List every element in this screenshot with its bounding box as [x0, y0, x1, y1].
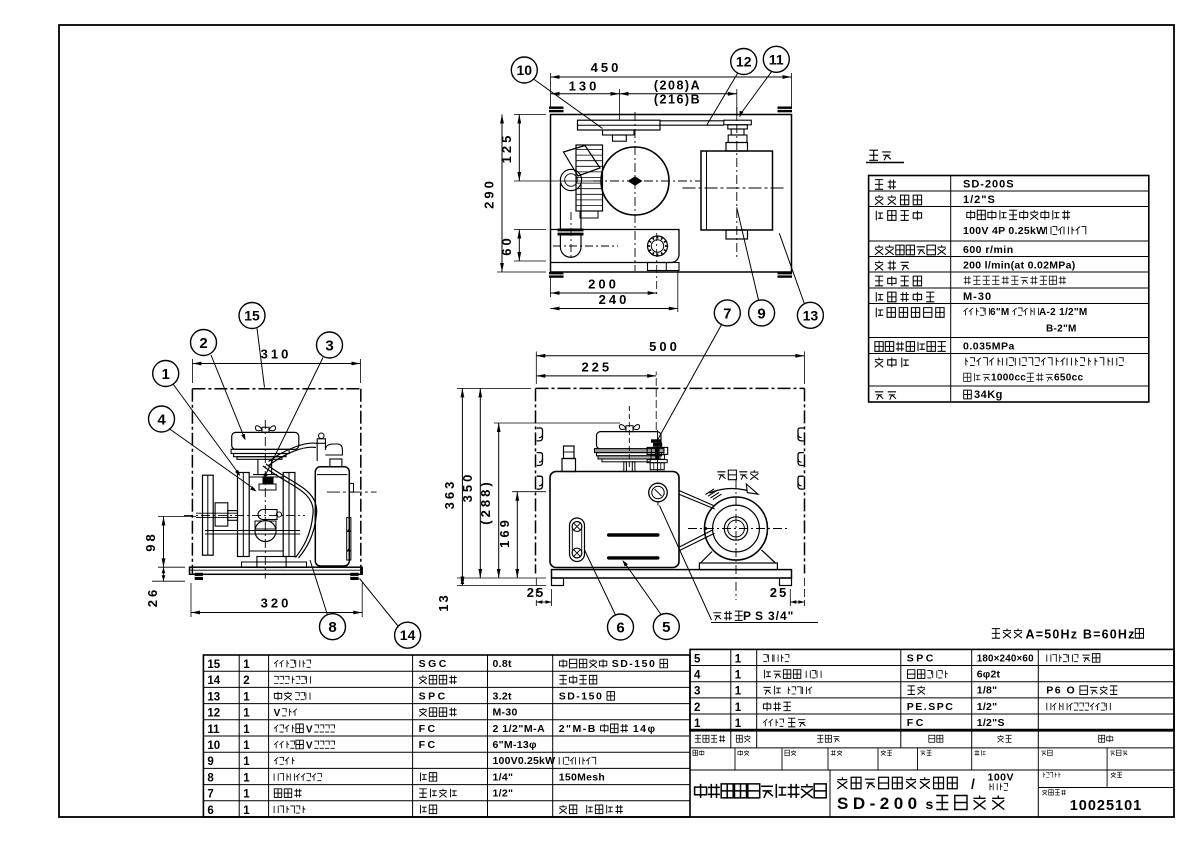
svg-text:363: 363	[442, 479, 457, 510]
svg-text:320: 320	[261, 596, 292, 611]
svg-text:2: 2	[694, 702, 700, 714]
spec table heading	[869, 150, 891, 160]
balloon 5	[653, 614, 679, 640]
svg-text:10025101: 10025101	[1070, 798, 1143, 814]
top view: hose clamp on pipe	[558, 229, 584, 236]
svg-text:1: 1	[735, 718, 742, 730]
svg-text:FC: FC	[907, 717, 926, 729]
drawing number cell	[1042, 790, 1066, 795]
svg-text:225: 225	[581, 359, 612, 374]
svg-text:1/8": 1/8"	[977, 685, 998, 697]
svg-text:V: V	[306, 724, 313, 735]
side view: oil nozzle	[258, 510, 277, 520]
svg-text:1: 1	[243, 789, 250, 801]
svg-text:(208)A: (208)A	[654, 79, 701, 93]
dimension 130	[619, 89, 621, 120]
leader to balloon 12	[707, 74, 738, 125]
svg-text:6: 6	[207, 805, 213, 817]
side view: air cleaner wing nut	[255, 426, 275, 432]
dimension 225	[655, 372, 657, 431]
svg-text:/: /	[971, 776, 975, 792]
svg-text:2 1/2"M-A: 2 1/2"M-A	[493, 723, 546, 735]
side view: discharge pipe and check valve	[319, 433, 325, 439]
side view: shaft nut at top center	[263, 477, 274, 484]
balloon 7	[714, 300, 740, 326]
svg-text:8: 8	[328, 619, 336, 636]
svg-text:11: 11	[769, 51, 784, 67]
svg-text:2: 2	[243, 675, 249, 687]
svg-text:SPC: SPC	[419, 690, 448, 702]
dimension 310	[191, 359, 193, 383]
svg-text:1: 1	[243, 740, 250, 752]
svg-text:0.035MPa: 0.035MPa	[963, 341, 1015, 353]
side view: air cleaner (intake, item 2)	[232, 432, 299, 449]
front view: cover chain outline	[536, 387, 805, 389]
svg-text:15: 15	[207, 659, 220, 671]
side view: rubber cushions (item 14)	[195, 573, 203, 580]
svg-text:8: 8	[207, 772, 214, 784]
front view: base feet	[552, 578, 564, 586]
side view: muffler tank	[315, 467, 349, 566]
side view: intake stem	[257, 459, 259, 474]
svg-text:1000cc: 1000cc	[991, 373, 1026, 384]
svg-text:1/2": 1/2"	[493, 788, 514, 800]
leader to balloon 7 (to front view safety valve)	[658, 324, 723, 440]
svg-text:PS: PS	[743, 609, 767, 623]
dimension 25 right	[789, 589, 791, 606]
svg-text:1: 1	[162, 366, 170, 383]
title block header labels	[695, 735, 725, 742]
dimension (208)A (216)B	[736, 89, 738, 119]
svg-text:450: 450	[591, 60, 622, 75]
dimension 125	[514, 114, 546, 116]
dimension 169	[512, 491, 546, 493]
dimension 13	[457, 577, 546, 579]
svg-text:SD-200S: SD-200S	[963, 179, 1015, 191]
svg-text:1: 1	[735, 702, 742, 714]
svg-text:6: 6	[616, 619, 624, 636]
svg-text:14: 14	[207, 675, 220, 687]
svg-text:1/2"S: 1/2"S	[977, 717, 1005, 729]
top view: motor pulley (item 11)	[724, 120, 752, 125]
svg-text:1: 1	[735, 686, 742, 698]
svg-text:9: 9	[757, 305, 765, 322]
balloon 12	[731, 49, 757, 75]
side view: common base plate (item 13)	[190, 567, 363, 574]
dimension 240	[677, 271, 679, 313]
svg-text:169: 169	[497, 517, 512, 548]
svg-text:5: 5	[694, 653, 701, 665]
side view: shaft center line	[184, 514, 305, 516]
title block signature row	[734, 748, 736, 770]
svg-text:600 r/min: 600 r/min	[963, 244, 1014, 256]
right parts table grid	[690, 649, 1174, 730]
spec table grid	[869, 176, 1149, 403]
drawing title line 1	[837, 777, 957, 788]
svg-text:1: 1	[243, 805, 250, 817]
svg-text:SPC: SPC	[907, 652, 936, 664]
balloon 9	[749, 300, 775, 326]
svg-text:200 l/min(at 0.02MPa): 200 l/min(at 0.02MPa)	[963, 260, 1076, 272]
svg-text:2: 2	[199, 335, 207, 352]
svg-text:6"M-13φ: 6"M-13φ	[493, 739, 538, 751]
front view: oil level slots	[607, 533, 660, 536]
front view: intake port stub (item 2)	[564, 446, 575, 459]
svg-text:500: 500	[649, 339, 680, 354]
svg-text:3/4": 3/4"	[768, 609, 794, 623]
dimension 26	[152, 580, 185, 582]
front view: cover louvers	[537, 428, 543, 441]
left parts table grid	[203, 655, 690, 817]
svg-text:1: 1	[243, 756, 250, 768]
svg-text:1: 1	[243, 691, 250, 703]
svg-text:310: 310	[261, 347, 292, 362]
balloon 13	[797, 302, 823, 328]
balloon 10	[511, 57, 537, 83]
leader to balloon 10	[534, 79, 603, 129]
file name cell label	[1044, 772, 1061, 777]
top view: rubber foot pads	[549, 107, 564, 113]
balloon 4	[149, 406, 175, 432]
svg-text:100V0.25kW: 100V0.25kW	[493, 755, 556, 767]
top view: blower body circle	[601, 147, 669, 215]
svg-text:V: V	[306, 741, 313, 752]
discharge port label	[713, 611, 743, 620]
svg-text:SGC: SGC	[419, 658, 449, 670]
svg-text:6φ2t: 6φ2t	[977, 669, 1001, 681]
svg-text:14: 14	[400, 627, 416, 643]
side view: muffler tabs	[349, 483, 353, 492]
svg-text:3: 3	[694, 686, 700, 698]
svg-text:5: 5	[662, 619, 670, 636]
top view: oil filler cap	[648, 236, 668, 256]
top view: motor body (item 9)	[701, 151, 773, 230]
leader to balloon 13 (common base)	[779, 233, 804, 304]
dimension 350	[479, 388, 481, 578]
svg-text:13: 13	[207, 691, 220, 703]
svg-text:1/2": 1/2"	[977, 701, 998, 713]
svg-text:130: 130	[569, 79, 600, 94]
svg-text:(216)B: (216)B	[654, 93, 701, 107]
front view: discharge port circle	[649, 483, 668, 502]
top view: base plate outline	[551, 115, 792, 273]
title block top border (thick)	[689, 729, 1174, 732]
svg-text:25: 25	[770, 585, 788, 600]
leader to balloon 9 (motor)	[737, 208, 759, 301]
front view: air cleaner center line	[628, 406, 630, 470]
date cell label	[1111, 772, 1122, 777]
balloon 8	[320, 614, 346, 640]
front view: motor center lines	[688, 528, 790, 530]
svg-text:12: 12	[207, 708, 220, 720]
svg-text:SD-150: SD-150	[559, 690, 604, 702]
dimension 290	[497, 271, 546, 273]
top view: motor fin block	[576, 145, 603, 211]
svg-text:3.2t: 3.2t	[493, 690, 512, 702]
svg-text:1: 1	[243, 708, 250, 720]
svg-text:0.8t: 0.8t	[493, 658, 512, 670]
svg-text:B-2"M: B-2"M	[1046, 324, 1077, 335]
side view: drip joint (item 3)	[259, 484, 276, 490]
dimension 98	[158, 516, 196, 518]
svg-text:180×240×60: 180×240×60	[977, 653, 1034, 664]
svg-text:s: s	[926, 796, 934, 812]
front view: rotation arrow arc	[710, 489, 759, 495]
svg-text:150Mesh: 150Mesh	[559, 771, 605, 783]
svg-text:6"M: 6"M	[990, 307, 1010, 318]
svg-text:11: 11	[207, 724, 220, 736]
svg-text:240: 240	[599, 292, 630, 307]
top view: motor center lines	[683, 187, 787, 189]
svg-text:1: 1	[243, 659, 250, 671]
side view: blower body plates (item 1)	[238, 473, 250, 557]
svg-text:1: 1	[694, 718, 701, 730]
svg-text:650cc: 650cc	[1054, 373, 1083, 384]
svg-text:SD-150: SD-150	[612, 658, 657, 670]
dimension 500	[535, 352, 537, 385]
svg-text:4: 4	[157, 411, 166, 428]
dimension 320	[190, 583, 192, 617]
svg-text:1: 1	[735, 653, 742, 665]
svg-text:350: 350	[460, 472, 475, 503]
svg-text:26: 26	[145, 587, 160, 607]
svg-text:7: 7	[723, 305, 731, 322]
svg-text:100V: 100V	[988, 772, 1015, 784]
svg-text:10: 10	[517, 62, 533, 78]
top view: blower pulley (item 10)	[578, 120, 661, 130]
leader to balloon 6 (oil gauge)	[585, 550, 616, 615]
side view: oil pump body	[255, 521, 276, 542]
dimension 363	[457, 387, 531, 389]
svg-text:100V 4P 0.25kW: 100V 4P 0.25kW	[963, 225, 1046, 237]
leader to balloon 3 (drip joint)	[264, 358, 323, 479]
svg-text:A=50Hz B=60Hz: A=50Hz B=60Hz	[1026, 627, 1136, 641]
svg-text:60: 60	[499, 235, 514, 255]
spec table row labels	[875, 180, 896, 190]
svg-text:10: 10	[207, 740, 220, 752]
side view: oil circulation hose (item 4)	[266, 464, 317, 558]
svg-text:2"M-B: 2"M-B	[559, 723, 597, 735]
svg-text:P6 O: P6 O	[1046, 685, 1076, 697]
side view: blower pulley (item 10)	[203, 475, 214, 555]
side view: pulley hub	[215, 503, 228, 526]
svg-text:FC: FC	[419, 739, 438, 751]
side view: body support feet	[257, 557, 286, 568]
svg-text:13: 13	[803, 307, 819, 323]
front view: air cleaner	[597, 432, 662, 449]
svg-text:PE.SPC: PE.SPC	[907, 701, 955, 713]
balloon 14	[395, 622, 421, 648]
svg-text:1: 1	[243, 772, 250, 784]
svg-text:200: 200	[588, 277, 619, 292]
svg-text:7: 7	[207, 789, 213, 801]
svg-text:125: 125	[499, 133, 514, 164]
leader to balloon 1 (blower body)	[173, 384, 239, 474]
balloon 1	[153, 361, 179, 387]
dimension 60	[514, 229, 546, 231]
top view: v-belt (item 12)	[660, 120, 724, 122]
svg-text:A-2 1/2"M: A-2 1/2"M	[1039, 307, 1088, 318]
side view: blower cover chain outline (item 15)	[192, 388, 360, 390]
leader to balloon 8 (oil strainer)	[310, 560, 328, 615]
svg-text:(288): (288)	[478, 479, 493, 524]
svg-text:V: V	[274, 708, 281, 719]
svg-text:FC: FC	[419, 723, 438, 735]
svg-text:9: 9	[207, 756, 213, 768]
front view: chamber tank (item 5)	[550, 472, 679, 568]
balloon 11	[763, 46, 789, 72]
company name	[695, 784, 827, 798]
svg-text:34Kg: 34Kg	[974, 389, 1003, 401]
title block company / title cells	[829, 770, 831, 817]
svg-text:SD-200: SD-200	[837, 794, 922, 813]
svg-text:1/4": 1/4"	[493, 771, 514, 783]
front view: motor (item 9)	[705, 497, 768, 560]
title block header row	[730, 730, 732, 748]
balloon 3	[317, 332, 343, 358]
leader to balloon 5 (chamber)	[624, 562, 661, 615]
dimension 200	[550, 278, 552, 298]
balloon 2	[191, 330, 217, 356]
svg-text:M-30: M-30	[963, 291, 992, 303]
top view: chamber tank (item 5)	[551, 230, 680, 263]
front view: oil gauge (item 6)	[570, 518, 585, 562]
leader to balloon 4 (oil hose)	[169, 429, 255, 490]
front view: safety valve stack (item 7)	[651, 439, 661, 442]
top view: blower center lines	[593, 180, 700, 182]
balloon 6	[608, 614, 634, 640]
leader to balloon 15 (blower cover)	[257, 328, 265, 387]
side view: muffler center line	[327, 491, 377, 493]
top view: blower center boss	[628, 176, 643, 186]
svg-text:25: 25	[527, 585, 545, 600]
svg-text:M-30: M-30	[493, 707, 518, 719]
svg-text:290: 290	[482, 178, 497, 209]
svg-text:15: 15	[244, 308, 260, 324]
svg-text:98: 98	[143, 531, 158, 551]
leader to balloon 11	[741, 71, 772, 114]
leader to balloon 14 (cushion)	[360, 579, 399, 627]
svg-text:12: 12	[736, 54, 752, 70]
leader to balloon 2 (air cleaner)	[211, 355, 245, 438]
svg-text:1/2"S: 1/2"S	[963, 194, 996, 206]
front view: wing nut	[619, 425, 639, 432]
front view: rotation direction label	[717, 470, 758, 480]
side view: pulley bolts	[205, 530, 300, 532]
dimension (288)	[494, 422, 620, 424]
svg-text:14φ: 14φ	[633, 723, 657, 735]
front view: common base plate	[552, 570, 792, 578]
svg-text:4: 4	[694, 670, 701, 682]
top view: chamber drain tab	[648, 263, 680, 271]
svg-text:3: 3	[325, 337, 333, 354]
front view: v-belt run	[679, 491, 714, 506]
svg-text:13: 13	[436, 593, 451, 611]
front view: motor pedestal	[701, 552, 713, 564]
svg-text:1: 1	[735, 670, 742, 682]
top view: intake elbow pipe	[560, 169, 581, 190]
note: in-figure A=50Hz B=60Hz	[992, 629, 1022, 639]
dimension 450	[550, 73, 552, 109]
dimension 25 left	[535, 578, 537, 606]
svg-text:1: 1	[243, 724, 250, 736]
balloon 15	[239, 303, 265, 329]
